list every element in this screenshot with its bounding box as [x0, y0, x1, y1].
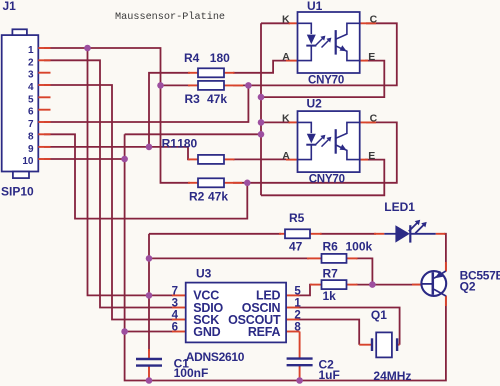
- svg-text:6: 6: [172, 322, 178, 334]
- wire net LED drive (J1 pin 9 to R4 and R1): [44, 73, 190, 160]
- wire net pin8 sense (J1 pin 8 to R2/U2.C node): [44, 134, 247, 218]
- svg-text:LED1: LED1: [384, 200, 415, 214]
- node U3 GND line: [121, 328, 128, 335]
- transistor Q2 BC557B: [412, 262, 446, 306]
- node pin1/VCC riser: [84, 45, 91, 52]
- svg-text:7: 7: [172, 286, 178, 298]
- svg-text:R7: R7: [323, 266, 339, 280]
- J1 pin stubs: [38, 48, 50, 159]
- svg-text:R4: R4: [184, 51, 200, 65]
- svg-text:1uF: 1uF: [319, 368, 340, 382]
- node R2 right / pin8 riser: [244, 180, 251, 187]
- node C2 / GND rail: [296, 377, 303, 384]
- svg-text:7: 7: [28, 119, 34, 130]
- J1 pin numbers 1-10: [22, 45, 34, 167]
- wire net SDIO (J1 pin 2 to U3 SDIO): [44, 60, 173, 307]
- svg-text:4: 4: [28, 82, 34, 93]
- capacitor C2: [287, 332, 313, 381]
- LED LED1: [374, 220, 445, 243]
- svg-text:A: A: [282, 51, 290, 63]
- wire net SCK (J1 pin 4 to U3 SCK): [44, 85, 173, 320]
- svg-text:Q1: Q1: [371, 308, 387, 322]
- svg-text:R2: R2: [189, 189, 205, 203]
- svg-text:A: A: [282, 150, 290, 162]
- svg-text:47: 47: [289, 239, 303, 253]
- wire net pin7 sense (J1 pin 7 to R3/U1.C node): [44, 85, 248, 122]
- wire net VCC (J1 pin 1 to R3/R2 pull-ups and U3 VCC): [44, 48, 309, 351]
- svg-text:3: 3: [28, 70, 34, 81]
- optocoupler U1 CNY70: [286, 12, 376, 73]
- svg-text:100k: 100k: [346, 239, 373, 253]
- svg-text:Q2: Q2: [460, 280, 476, 294]
- resistor R3: [188, 81, 243, 90]
- svg-text:180: 180: [210, 51, 230, 65]
- wire net OSCIN to crystal: [298, 308, 400, 345]
- wire net U1.A from R4: [233, 61, 286, 73]
- wire net R6/R7 to Q2 base: [356, 258, 422, 284]
- wire net U2.C / R2: [233, 122, 397, 182]
- resistor R2: [188, 178, 242, 187]
- svg-text:9: 9: [28, 144, 34, 155]
- svg-text:5: 5: [294, 286, 301, 298]
- svg-text:CNY70: CNY70: [308, 74, 344, 86]
- node R3 right / pin7 riser: [245, 82, 252, 89]
- svg-text:U3: U3: [196, 267, 212, 281]
- svg-text:2: 2: [28, 57, 34, 68]
- node pin10 / GND: [121, 156, 128, 163]
- node pin9 / R4 / R1: [146, 144, 153, 151]
- svg-text:K: K: [282, 14, 290, 26]
- svg-text:24MHz: 24MHz: [373, 369, 411, 383]
- optocoupler U2 CNY70: [286, 111, 376, 172]
- wire net OSCOUT to crystal: [298, 320, 359, 345]
- svg-text:U1: U1: [307, 0, 323, 13]
- U3 pin numbers: [172, 286, 302, 334]
- node R6 left / VCC riser: [146, 255, 153, 262]
- svg-text:CNY70: CNY70: [309, 174, 345, 186]
- svg-text:1k: 1k: [323, 289, 337, 303]
- svg-text:R6: R6: [323, 239, 339, 253]
- svg-text:3: 3: [172, 298, 178, 310]
- wire net U1.C / R3: [233, 23, 397, 85]
- resistor R5: [279, 229, 322, 238]
- svg-text:1: 1: [294, 298, 301, 310]
- node R6/R7/Q2 base: [369, 281, 376, 288]
- U1 pin letters K A C E: [282, 14, 378, 63]
- svg-text:GND: GND: [193, 325, 220, 339]
- resistor R7: [310, 280, 358, 289]
- node C1 / GND rail: [146, 377, 153, 384]
- svg-text:Maussensor-Platine: Maussensor-Platine: [115, 11, 225, 23]
- wire net GND (J1 pin 10, optocoupler K/E, U3 GND, bottom rail): [44, 23, 446, 380]
- svg-text:U2: U2: [307, 97, 323, 111]
- node R3 left / VCC: [157, 82, 164, 89]
- svg-text:R5: R5: [289, 211, 305, 225]
- node GND / U1.E: [258, 94, 265, 101]
- resistor R6: [307, 254, 358, 263]
- wire net U3 LED pin 5 to R7: [298, 285, 312, 296]
- svg-text:E: E: [368, 51, 375, 63]
- capacitor C1: [136, 349, 162, 381]
- svg-text:100nF: 100nF: [174, 366, 209, 380]
- svg-text:K: K: [282, 113, 290, 125]
- node VCC line / C1 riser: [146, 292, 153, 299]
- resistor R1: [188, 155, 235, 164]
- svg-text:J1: J1: [3, 0, 17, 13]
- node GND / U2.K: [258, 119, 265, 126]
- svg-text:10: 10: [22, 156, 34, 167]
- svg-text:REFA: REFA: [248, 325, 281, 339]
- svg-text:C: C: [370, 113, 378, 125]
- U3 pin names: [193, 289, 281, 339]
- svg-text:SIP10: SIP10: [1, 185, 34, 199]
- svg-text:2: 2: [294, 310, 300, 322]
- svg-text:180: 180: [177, 136, 197, 150]
- wire net R5 to LED1 to Q2 emitter: [320, 234, 446, 271]
- svg-text:R3: R3: [185, 92, 201, 106]
- svg-text:8: 8: [28, 131, 34, 142]
- resistor R4: [188, 68, 235, 77]
- svg-text:R1: R1: [162, 136, 178, 150]
- svg-text:4: 4: [172, 310, 179, 322]
- IC U3 ADNS2610: [172, 283, 300, 343]
- U2 pin letters K A C E: [282, 113, 378, 162]
- svg-text:47k: 47k: [207, 92, 227, 106]
- svg-text:1: 1: [28, 45, 34, 56]
- crystal Q1 24MHz: [359, 332, 399, 357]
- node GND spur: [258, 131, 265, 138]
- connector J1: [2, 29, 39, 178]
- svg-text:5: 5: [28, 94, 34, 105]
- svg-text:E: E: [368, 150, 375, 162]
- svg-text:ADNS2610: ADNS2610: [186, 350, 245, 364]
- svg-text:C: C: [370, 14, 378, 26]
- svg-text:6: 6: [28, 107, 34, 118]
- wire net U2.A from R1: [233, 158, 286, 160]
- svg-text:47k: 47k: [208, 189, 228, 203]
